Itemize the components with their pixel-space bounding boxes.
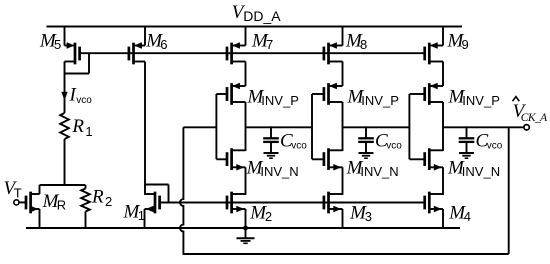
transistor M_INV_N (stage 3) — [425, 148, 443, 170]
node M_INV_P label (stage 2) — [347, 87, 399, 109]
node ground junction — [243, 226, 248, 231]
svg-text:7: 7 — [266, 37, 273, 52]
wire inverter input (stage 1) — [216, 94, 227, 159]
ground (C_vco stage 1) — [264, 153, 279, 158]
node R1 label — [71, 116, 92, 139]
node I_vco label — [69, 85, 93, 106]
wire feedback bottom — [183, 253, 508, 255]
node V_T terminal — [14, 200, 19, 205]
wire M1 diode connection — [145, 185, 169, 203]
transistor M7 — [227, 27, 246, 65]
node M_R label — [42, 191, 67, 212]
svg-text:1: 1 — [85, 124, 92, 139]
wire inverter output vertical — [342, 102, 344, 151]
svg-text:vco: vco — [386, 141, 402, 152]
svg-text:5: 5 — [54, 37, 61, 52]
transistor M5 — [65, 27, 80, 65]
node M_INV_P label (stage 1) — [247, 87, 299, 109]
transistor M8 — [324, 27, 343, 65]
transistor M9 — [425, 27, 443, 65]
svg-text:CK_A: CK_A — [521, 112, 548, 124]
transistor M1 — [145, 192, 160, 228]
wire feedback right vertical — [508, 127, 510, 254]
wire stage2 output to stage3 input — [343, 126, 410, 128]
wire NMOS mirror gate bus — [160, 202, 425, 204]
svg-text:9: 9 — [462, 37, 469, 52]
node M_INV_P label (stage 3) — [448, 87, 500, 109]
wire mirror drain to inverter — [442, 62, 444, 87]
wire V_DD_A supply rail — [47, 26, 463, 28]
node M3 label — [349, 202, 372, 223]
node V_T label — [4, 178, 22, 201]
wire inverter output vertical — [245, 102, 247, 151]
wire stage3 output to V_CK_A terminal — [443, 126, 524, 128]
svg-text:2: 2 — [105, 194, 112, 209]
svg-text:2: 2 — [265, 209, 272, 224]
node M4 label — [448, 202, 471, 223]
svg-text:R: R — [57, 198, 66, 213]
svg-text:6: 6 — [160, 37, 167, 52]
node C_vco label (stage 2) — [375, 130, 402, 151]
svg-text:INV_N: INV_N — [462, 164, 500, 179]
wire PMOS mirror gate bus — [80, 52, 425, 54]
svg-text:R: R — [71, 116, 84, 137]
node M5 label — [39, 30, 61, 51]
wire M5 diode connection — [65, 53, 90, 74]
node V_CK_A label — [513, 97, 549, 124]
wire inverter source to tail transistor — [442, 167, 444, 195]
node I_vco current arrow — [62, 92, 68, 100]
ground (C_vco stage 3) — [459, 153, 474, 158]
wire mirror drain to inverter — [245, 62, 247, 87]
transistor M2 — [227, 192, 246, 228]
wire ground rail — [26, 227, 460, 229]
node V_DD_A label — [232, 2, 282, 24]
node M6 label — [145, 30, 167, 51]
wire mirror drain to inverter — [342, 62, 344, 87]
svg-text:vco: vco — [76, 95, 92, 106]
node M8 label — [345, 30, 367, 51]
svg-text:INV_N: INV_N — [360, 164, 398, 179]
transistor M3 — [324, 192, 343, 228]
wire R1 to bias node — [64, 139, 66, 186]
wire I_vco branch — [64, 74, 66, 114]
svg-text:vco: vco — [487, 141, 503, 152]
svg-text:INV_P: INV_P — [361, 93, 399, 108]
svg-text:vco: vco — [291, 141, 307, 152]
wire inverter input (stage 2) — [312, 94, 324, 159]
wire M6 drain to M1 — [144, 62, 146, 195]
node V_CK_A terminal — [524, 125, 529, 130]
node M_INV_N label (stage 3) — [447, 157, 500, 178]
node M1 label — [123, 201, 146, 222]
svg-text:DD_A: DD_A — [243, 8, 281, 24]
transistor M_INV_P (stage 2) — [324, 83, 343, 105]
svg-text:INV_P: INV_P — [462, 93, 500, 108]
capacitor C_vco (stage 2) — [358, 126, 374, 153]
svg-text:1: 1 — [138, 208, 145, 223]
node C_vco label (stage 1) — [280, 130, 307, 151]
node M2 label — [249, 202, 272, 223]
svg-text:R: R — [91, 186, 104, 207]
wire inverter output vertical — [442, 102, 444, 151]
wire inverter source to tail transistor — [342, 167, 344, 195]
transistor M4 — [425, 192, 443, 228]
svg-text:3: 3 — [365, 209, 372, 224]
resistor R1 — [60, 113, 69, 139]
svg-text:INV_N: INV_N — [260, 164, 298, 179]
capacitor C_vco (stage 1) — [263, 126, 279, 153]
capacitor C_vco (stage 3) — [459, 126, 475, 153]
svg-text:4: 4 — [464, 209, 471, 224]
node M7 label — [251, 30, 273, 51]
transistor M6 — [129, 27, 145, 65]
node M_INV_N label (stage 2) — [346, 157, 399, 178]
wire V_T to MR gate — [19, 201, 26, 203]
node M9 label — [447, 30, 469, 51]
transistor M_INV_P (stage 3) — [425, 83, 443, 105]
svg-text:T: T — [14, 186, 22, 201]
ground — [237, 228, 255, 243]
wire bias node — [40, 184, 86, 186]
transistor M_INV_N (stage 2) — [324, 148, 343, 170]
wire inverter input (stage 3) — [409, 94, 424, 159]
svg-text:8: 8 — [360, 37, 367, 52]
node M_INV_N label (stage 1) — [246, 157, 299, 178]
ground (C_vco stage 2) — [359, 153, 374, 158]
wire inverter source to tail transistor — [245, 167, 247, 195]
wire feedback to stage1 input — [183, 126, 216, 128]
transistor M_INV_P (stage 1) — [227, 83, 246, 105]
resistor R2 — [81, 185, 90, 228]
wire stage1 output to stage2 input — [246, 126, 313, 128]
node R2 label — [91, 186, 112, 209]
svg-text:INV_P: INV_P — [261, 93, 299, 108]
wire feedback left vertical with crossover hops — [180, 127, 183, 255]
transistor M_R — [26, 185, 40, 228]
node C_vco label (stage 3) — [476, 130, 503, 151]
transistor M_INV_N (stage 1) — [227, 148, 246, 170]
